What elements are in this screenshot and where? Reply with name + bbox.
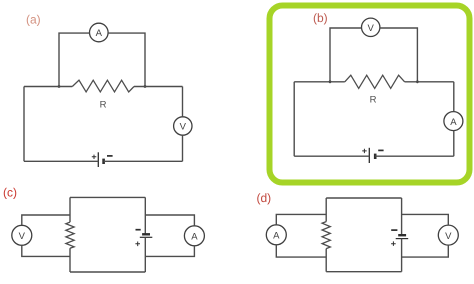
- svg-text:V: V: [445, 231, 452, 242]
- resistor R (circuit d): [322, 222, 330, 249]
- wire: right edge upper segment (circuit d): [401, 198, 403, 235]
- ammeter A (circuit a): [90, 23, 109, 42]
- wire: left edge lower segment (circuit d): [325, 249, 327, 272]
- wire: inner rectangle top (circuit c): [70, 196, 145, 198]
- svg-text:A: A: [96, 28, 103, 39]
- wire: ammeter loop bottom (circuit c): [145, 246, 194, 257]
- wire: ammeter loop bottom (circuit d): [276, 245, 326, 257]
- svg-text:A: A: [450, 117, 457, 128]
- wire: resistor row right lead (circuit b): [405, 81, 454, 83]
- battery B1 (circuit b): [362, 148, 383, 163]
- wire: ammeter top branch (circuit a): [59, 33, 145, 86]
- wire: voltmeter loop top (circuit c): [22, 215, 70, 225]
- wire: left edge upper segment (circuit d): [325, 198, 327, 222]
- svg-text:V: V: [19, 231, 26, 242]
- svg-text:A: A: [191, 232, 198, 243]
- wire: bottom of loop (circuit a): [24, 160, 183, 162]
- wire: left edge lower segment (circuit c): [69, 248, 71, 272]
- wire: voltmeter loop bottom (circuit c): [22, 245, 70, 256]
- node: right junction of voltmeter branch (circuit b): [416, 80, 419, 83]
- wire: resistor row right lead (circuit a): [134, 86, 183, 88]
- wire: voltmeter top branch (circuit b): [330, 28, 417, 82]
- wire: bottom of loop (circuit b): [294, 155, 454, 157]
- svg-text:V: V: [180, 122, 187, 133]
- wire: right side lower (circuit b): [453, 131, 455, 157]
- battery B1 (circuit c): [135, 230, 152, 246]
- highlight box around circuit (b): [270, 6, 470, 183]
- ammeter A (circuit b): [444, 112, 463, 131]
- battery B1 (circuit a): [92, 152, 113, 167]
- wire: voltmeter loop bottom (circuit d): [402, 245, 449, 257]
- wire: resistor row left lead (circuit a): [24, 86, 72, 88]
- wire: ammeter loop top (circuit c): [145, 215, 194, 226]
- ammeter A (circuit c): [184, 226, 204, 246]
- svg-text:R: R: [370, 95, 377, 106]
- voltmeter V (circuit d): [438, 225, 458, 245]
- wire: resistor row left lead (circuit b): [294, 81, 345, 83]
- ammeter A (circuit d): [266, 225, 286, 245]
- battery B1 (circuit d): [391, 230, 408, 246]
- wire: inner rectangle top (circuit d): [326, 197, 401, 199]
- wire: right edge lower segment (circuit d): [401, 239, 403, 272]
- svg-text:(b): (b): [313, 11, 328, 25]
- wire: right edge upper segment with battery lead (circuit c): [144, 197, 146, 234]
- voltmeter V (circuit c): [12, 225, 32, 245]
- node: left junction of voltmeter branch (circuit b): [329, 80, 332, 83]
- svg-text:R: R: [100, 100, 107, 111]
- wire: inner rectangle bottom (circuit d): [326, 271, 401, 273]
- wire: ammeter loop top (circuit d): [276, 214, 326, 224]
- wire: right side upper (circuit a): [182, 87, 184, 117]
- svg-text:(a): (a): [26, 13, 41, 27]
- svg-text:(c): (c): [3, 186, 17, 200]
- wire: right side upper (circuit b): [453, 82, 455, 112]
- resistor R (circuit b): [345, 75, 405, 88]
- voltmeter V (circuit b): [362, 18, 380, 36]
- svg-text:(d): (d): [257, 191, 272, 205]
- svg-text:V: V: [368, 23, 375, 34]
- svg-text:A: A: [273, 231, 280, 242]
- resistor R (circuit a): [72, 80, 134, 92]
- wire: voltmeter loop top (circuit d): [402, 214, 449, 225]
- wire: left side of outer loop (circuit a): [23, 87, 25, 162]
- wire: left edge upper segment (circuit c): [69, 197, 71, 222]
- voltmeter V (circuit a): [174, 117, 192, 135]
- resistor R (circuit c): [66, 222, 74, 248]
- wire: inner rectangle bottom (circuit c): [70, 271, 145, 273]
- node: left junction of ammeter branch (circuit a): [58, 85, 61, 88]
- wire: right edge lower segment (circuit c): [144, 237, 146, 272]
- node: right junction of ammeter branch (circuit a): [144, 85, 147, 88]
- wire: right side lower (circuit a): [182, 135, 184, 161]
- wire: left side of outer loop (circuit b): [293, 82, 295, 156]
